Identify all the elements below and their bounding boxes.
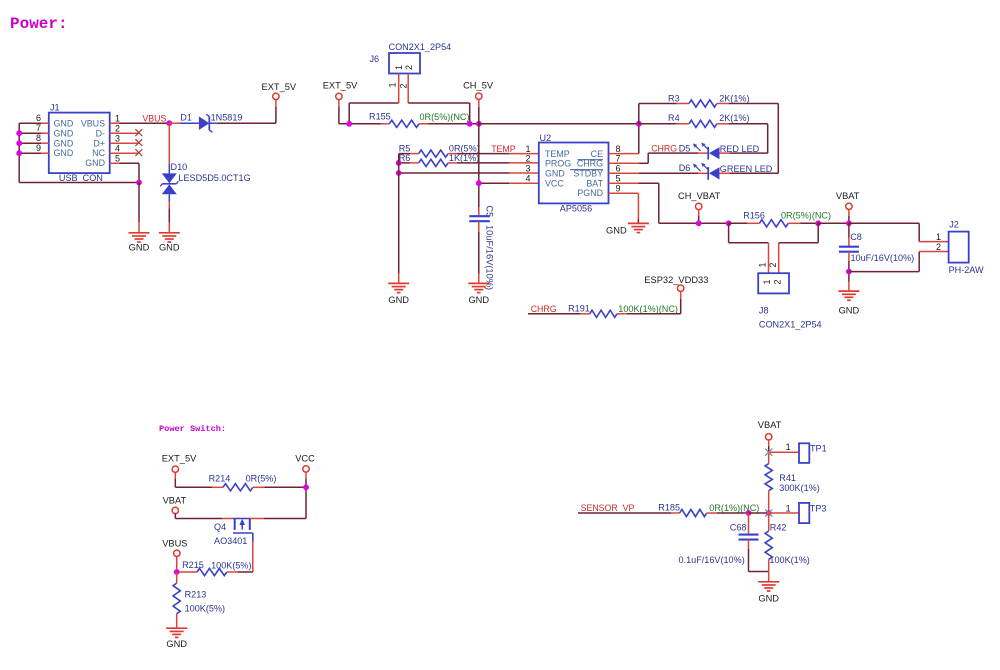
connector J1 pins 2-4 stubs [110,133,139,153]
resistor R213 value [185,603,225,613]
svg-text:GND: GND [85,158,105,168]
resistor R215 value [211,560,251,570]
wire R213 to GND7 [176,614,178,629]
wire to R213 [176,572,178,583]
svg-text:VBUS: VBUS [162,538,187,548]
connector J8 refdes [759,306,769,316]
wire R4 right to red led [717,124,768,153]
svg-text:R185: R185 [658,502,680,512]
svg-text:6: 6 [36,113,41,123]
junction dot R156 left [726,220,732,226]
connector J6 refdes [370,54,380,64]
svg-text:GND: GND [545,168,565,178]
junction dot TP3 node [766,510,772,516]
transistor Q4 symbol [233,519,253,542]
resistor R41 [765,464,772,491]
wire VBUS to D1 anode [169,122,199,124]
resistor R3 value [719,93,749,103]
resistor R214 refdes [209,473,231,483]
resistor R41 value [779,483,819,493]
ic U2 box [539,143,609,204]
diode D1 symbol [199,114,213,132]
svg-text:4: 4 [525,174,530,184]
capacitor C8 plates [839,247,859,252]
svg-text:1: 1 [786,442,791,452]
wire U2 pin7 CHRG [609,153,649,163]
svg-text:NC: NC [92,148,105,158]
wire R5 to U2 pin1 TEMP [448,153,539,155]
power port VBUS (switch) [174,550,180,556]
svg-text:J2: J2 [949,220,959,230]
ground GND6 label [839,305,860,315]
resistor R214 [223,484,253,491]
wire R215 left stub [177,571,197,573]
ground GND7 [166,628,187,637]
net label TEMP [491,144,516,154]
power port EXT_5V (J6) [336,93,342,99]
svg-text:2: 2 [772,280,782,285]
svg-text:C68: C68 [730,522,747,532]
svg-text:7: 7 [616,154,621,164]
net label CHRG (led) [651,143,677,153]
power port VBAT (divider) label [758,420,782,430]
led D6 refdes [679,163,691,173]
connector J8 inner pin2 digit [772,280,782,285]
wire J8 loop left [729,223,769,243]
wire Q4 gate down [238,542,253,573]
wire VBUS down [176,557,178,573]
testpoint TP3 label [810,503,827,513]
connector J8 inner pin1 digit [762,280,772,285]
junction dot U2 VCC [476,180,482,186]
resistor R4 value [719,113,749,123]
wire R185 to C68 junction [707,512,749,514]
testpoint TP3 pin wire [769,512,799,514]
resistor R6 [419,159,448,166]
svg-text:R5: R5 [399,144,411,154]
svg-text:J6: J6 [370,54,380,64]
resistor R155 refdes [369,111,391,121]
svg-text:1: 1 [758,263,768,268]
wire J1 pin5 GND [110,163,139,182]
svg-text:CH_5V: CH_5V [463,81,494,91]
ground GND5 [468,283,489,292]
wire TP3 to R42 [768,513,770,531]
capacitor C5 refdes (rotated) [485,205,495,217]
wire D1 cathode to EXT_5V [209,100,276,124]
resistor R4 [689,120,717,127]
svg-text:GND: GND [129,243,150,253]
svg-text:0R(5%): 0R(5%) [449,144,480,154]
power port EXT_5V (switch) [172,466,178,472]
svg-text:D5: D5 [679,143,691,153]
svg-text:9: 9 [36,143,41,153]
wire R214 right [253,486,306,488]
wire VBAT to Q4 source [175,514,233,519]
junction X TP3 [765,509,772,516]
svg-text:2: 2 [525,153,530,163]
wire R3 right to green led [717,104,779,174]
svg-text:U2: U2 [540,133,552,143]
wire VBUS down to D10 [168,123,170,173]
svg-text:PGND: PGND [577,188,603,198]
no-connect X pin4 [135,149,142,156]
wire D10 to GND2 [168,194,170,233]
wire R41 to TP3 junction [768,491,770,513]
svg-text:1: 1 [786,503,791,513]
svg-text:BAT: BAT [586,178,603,188]
connector J2 part name PH-2AW [949,265,984,275]
connector J6 part name [389,42,452,52]
svg-text:ESP32_VDD33: ESP32_VDD33 [644,275,708,285]
svg-text:2: 2 [115,123,120,133]
power port CH_5V label [463,81,494,91]
svg-text:6: 6 [616,164,621,174]
resistor R155 value [420,112,470,122]
connector J1 box [49,113,110,174]
svg-text:R4: R4 [668,113,680,123]
svg-text:2: 2 [936,242,941,252]
connector J2 pin2 number [936,242,941,252]
ic U2 right pin numbers [616,144,621,194]
power port VBAT (switch) label [163,496,187,506]
wire EXT_5V col [175,472,223,487]
power port VCC [303,466,309,472]
junction dot R6 left [396,160,402,166]
svg-text:VBUS: VBUS [81,119,105,129]
wire R191 to ESP32_VDD33 [617,292,681,314]
connector J6 pin2 number [398,84,408,89]
svg-text:TP1: TP1 [810,444,827,454]
junction X TP1 [765,449,772,456]
svg-text:AO3401: AO3401 [214,536,247,546]
wire J6 pin1 loop [349,103,399,124]
svg-text:0R(1%)(NC): 0R(1%)(NC) [709,503,759,513]
wire R3 left [639,103,689,105]
wire C5 to GND5 [478,221,480,283]
svg-text:R42: R42 [770,522,787,532]
svg-text:3: 3 [115,133,120,143]
connector J6 pin1 number [387,83,397,88]
testpoint TP1 pin wire [769,451,799,453]
ground GND3 label [606,226,627,236]
svg-text:GND: GND [166,639,187,649]
ground GND4 [388,283,409,292]
power port VBAT (divider) [766,434,772,440]
svg-text:CH_VBAT: CH_VBAT [678,191,721,201]
wire to D5 cathode [648,152,708,154]
power port VBAT (charger) [846,203,852,209]
resistor R215 [197,568,227,575]
junction dot VCC/R214 [303,484,309,490]
svg-text:R155: R155 [369,111,391,121]
connector J2 pin1 number [936,232,941,242]
ic U2 refdes [540,133,552,143]
wire to GND1 [138,183,140,233]
wire VBAT to J2 pin1 [849,223,949,241]
resistor R155 [389,120,419,127]
svg-text:EXT_5V: EXT_5V [262,82,297,92]
svg-text:1N5819: 1N5819 [211,113,243,123]
wire D5 anode [720,152,768,154]
connector J8 pin2 number [768,263,778,268]
junction dot CE/5V rail [636,121,642,127]
tvs diode D10 refdes [171,162,188,172]
resistor R185 value [709,503,759,513]
connector J2 box [949,232,969,263]
resistor R42 [765,531,772,559]
net label CHRG (R191) [531,304,557,314]
svg-text:VBUS: VBUS [142,113,166,123]
ground GND6 [838,291,859,300]
svg-text:10uF/16V(10%): 10uF/16V(10%) [485,225,495,290]
transistor Q4 value AO3401 [214,536,247,546]
svg-text:100K(5%): 100K(5%) [185,603,225,613]
svg-text:R3: R3 [668,93,680,103]
resistor R6 refdes [399,153,411,163]
wire R6 to U2 pin2 PROG [448,162,539,164]
svg-text:D+: D+ [93,138,105,148]
wire R215 right stub [227,571,238,573]
connector J6 inner pin1 digit [394,65,404,70]
svg-text:VCC: VCC [295,453,315,463]
svg-text:CHRG: CHRG [651,143,677,153]
svg-text:100K(1%)(NC): 100K(1%)(NC) [618,304,678,314]
svg-text:R215: R215 [182,560,204,570]
diode D1 refdes [180,113,192,123]
svg-text:300K(1%): 300K(1%) [779,483,819,493]
svg-text:1: 1 [387,83,397,88]
svg-text:2: 2 [768,263,778,268]
power port VCC label [295,453,315,463]
wire C68 top [748,513,750,535]
tvs diode D10 value [178,173,250,183]
capacitor C68 plates [739,535,759,540]
svg-text:D10: D10 [171,162,188,172]
ground GND1 label [129,243,150,253]
wire C68 junction to R42 col [749,512,769,514]
svg-text:GND: GND [758,594,779,604]
capacitor C8 refdes [850,232,862,242]
capacitor C5 value (rotated) [485,225,495,290]
svg-text:2: 2 [404,65,414,70]
svg-text:GND: GND [54,138,74,148]
resistor R191 value [618,304,678,314]
resistor R191 [590,310,617,317]
svg-text:Power Switch:: Power Switch: [159,424,226,434]
svg-text:GND: GND [388,295,409,305]
svg-text:EXT_5V: EXT_5V [323,81,358,91]
led D6 name GREEN LED [720,164,773,174]
ground GND8 [758,582,779,591]
connector J8 box [758,273,789,293]
wire J8 loop right [779,223,819,243]
ground GND5 label [468,295,489,305]
svg-text:0R(5%): 0R(5%) [246,474,277,484]
no-connect X pin3 [135,139,142,146]
wire R4 left [639,123,689,125]
svg-text:D1: D1 [180,113,192,123]
svg-text:VCC: VCC [545,178,564,188]
wire U2 pin8 CE up to 5V [609,124,639,154]
svg-text:GND: GND [159,243,180,253]
wire R6 left [399,162,419,164]
connector J8 pin1 [768,243,770,273]
wire C68 bottom to R42 col [749,540,769,572]
svg-text:Q4: Q4 [214,522,226,532]
svg-text:GND: GND [54,119,74,129]
wire R156 right [788,222,818,224]
transistor Q4 refdes [214,522,226,532]
svg-text:C8: C8 [850,232,862,242]
junction dot CH_5V [476,121,482,127]
resistor R3 refdes [668,93,680,103]
svg-text:GND: GND [606,226,627,236]
svg-text:CHRG: CHRG [531,304,557,314]
wire CH_VBAT down [698,210,700,224]
ic U2 part name AP5056 [560,203,592,213]
wire J1 pin1 to VBUS node [110,122,170,124]
svg-text:PROG: PROG [545,159,571,169]
capacitor C68 value [679,555,745,565]
connector J6 pin1 [398,74,400,104]
svg-text:VBAT: VBAT [836,191,860,201]
no-connect X pin2 [135,129,142,136]
junction dot R156 right [815,220,821,226]
svg-text:0.1uF/16V(10%): 0.1uF/16V(10%) [679,555,745,565]
wire SENSOR_VP to R185 [578,512,680,514]
junction dot J6 pin2 [467,121,473,127]
title Power: [10,15,68,33]
capacitor C5 plates [469,216,490,221]
connector J8 pin1 number [758,263,768,268]
ic U2 pin labels [545,149,604,198]
resistor R5 refdes [399,144,411,154]
junction dot pin3 left [396,170,402,176]
connector J6 inner pin2 digit [404,65,414,70]
svg-text:5: 5 [115,154,120,164]
svg-text:D6: D6 [679,163,691,173]
svg-text:R191: R191 [568,303,590,313]
wire J6 pin2 loop [408,103,470,124]
led D5 symbol [693,143,720,160]
led D6 symbol [693,163,720,180]
connector J1 right pin numbers [115,113,120,163]
junction dot CH_VBAT [696,220,702,226]
testpoint TP3 pin number [786,503,791,513]
svg-text:5: 5 [616,174,621,184]
connector J8 part name [759,320,822,330]
wire rail to VBAT [818,222,849,224]
led D5 refdes [679,143,691,153]
ground GND1 [129,233,150,242]
svg-text:R41: R41 [779,473,796,483]
ground GND2 label [159,243,180,253]
svg-text:1: 1 [936,232,941,242]
wire CH_5V column to C5 [478,124,480,216]
svg-text:1: 1 [115,113,120,123]
testpoint TP3 box [799,503,809,523]
power port EXT_5V (J6) label [323,81,358,91]
svg-text:2K(1%): 2K(1%) [719,93,749,103]
wire R156 left stub [729,222,760,224]
power port EXT_5V (switch) label [162,453,197,463]
resistor R215 refdes [182,560,204,570]
wire CHRG to R191 [528,313,590,315]
svg-text:D-: D- [96,129,105,139]
wire R42 to GND8 [768,559,770,581]
testpoint TP1 box [799,443,809,463]
svg-text:4: 4 [115,143,120,153]
power port CH_VBAT label [678,191,721,201]
power port EXT_5V (top) label [262,82,297,92]
resistor R6 value [449,153,479,163]
svg-text:CE: CE [591,149,603,159]
svg-text:USB_CON: USB_CON [59,173,103,183]
svg-text:0R(5%)(NC): 0R(5%)(NC) [781,211,831,221]
wire VBAT down [848,210,850,224]
resistor R156 [759,220,788,227]
resistor R3 [689,100,717,107]
wire CH_5V down [478,99,480,123]
resistor R156 value [781,211,831,221]
resistor R42 value [769,555,809,565]
wire EXT_5V down [339,100,389,124]
svg-text:2K(1%): 2K(1%) [719,113,749,123]
wire J1 left GND bus vertical [18,123,20,182]
wire C8 to J2 pin2 [849,252,949,272]
svg-text:AP5056: AP5056 [560,203,592,213]
junction dot C68 tap [746,510,752,516]
junction dots J1 left pins [16,130,22,156]
svg-text:LESD5D5.0CT1G: LESD5D5.0CT1G [178,173,250,183]
svg-text:9: 9 [616,184,621,194]
wire U2 pin9 PGND [609,193,639,223]
svg-text:7: 7 [36,123,41,133]
wire left column to GND4 [398,154,400,284]
svg-text:8: 8 [616,144,621,154]
connector J1 refdes [50,102,60,112]
resistor R185 refdes [658,502,680,512]
svg-text:J8: J8 [759,306,769,316]
svg-text:1: 1 [394,65,404,70]
ground GND8 label [758,594,779,604]
power port VBAT (charger) label [836,191,860,201]
wire R155 to CH_5V [419,123,479,125]
power port CH_VBAT [696,203,702,209]
svg-text:GND: GND [54,148,74,158]
resistor R5 value [449,144,480,154]
wire VBAT to C8 [848,223,850,246]
wire D6 anode [720,172,779,174]
svg-text:SENSOR_VP: SENSOR_VP [581,503,635,513]
power port VBUS (switch) label [162,538,187,548]
connector J1 left pins 6-9 [19,113,49,153]
wire VBAT to TP1 junction [768,440,770,464]
svg-text:2: 2 [398,84,408,89]
svg-text:TEMP: TEMP [545,149,570,159]
svg-text:TEMP: TEMP [491,144,516,154]
resistor R42 refdes [770,522,787,532]
power port EXT_5V (top) [273,93,279,99]
power port ESP32_VDD33 [678,285,684,291]
led D5 name RED LED [720,144,760,154]
svg-text:CON2X1_2P54: CON2X1_2P54 [759,320,822,330]
connector J1 pin labels [54,119,106,169]
wire J1 bottom GND run [19,182,139,184]
svg-text:GREEN LED: GREEN LED [720,164,773,174]
svg-text:VBAT: VBAT [163,496,187,506]
